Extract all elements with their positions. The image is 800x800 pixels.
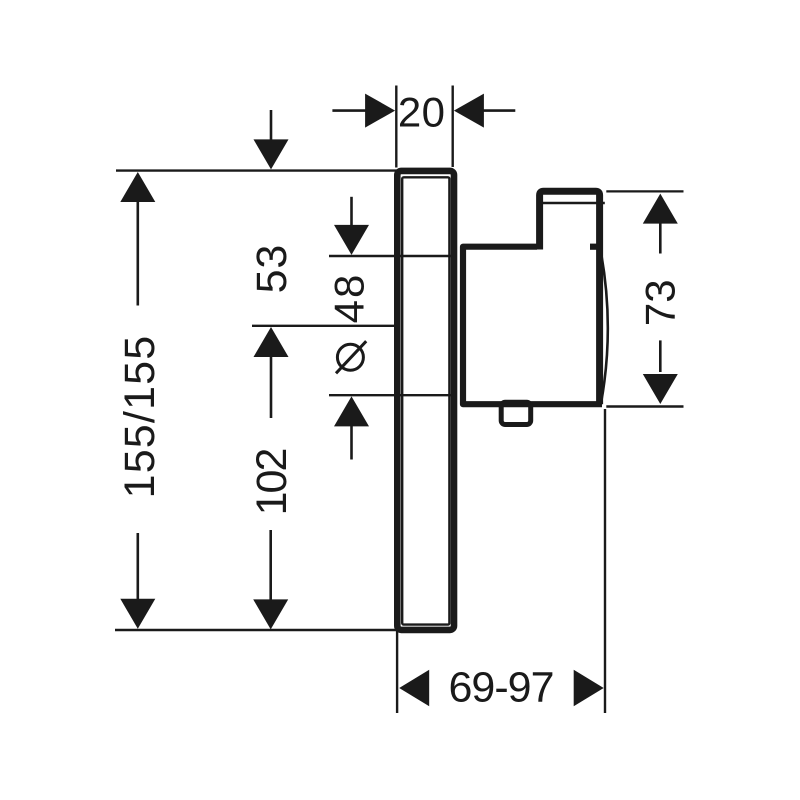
outlet spout [501,402,531,424]
dim 48 bottom arrow [334,396,369,459]
dim 102 bottom arrow [253,530,288,629]
extension line 69-97 left [396,630,398,713]
extension line 20-right [452,86,454,168]
shared arrow on centerline (53 bottom / 102 top) [254,327,289,418]
dim 69-97 left arrow [399,670,429,706]
extension line 48-bottom [329,394,455,396]
svg-text:102: 102 [248,450,296,516]
handle grip line [543,202,605,204]
extension line 73-bottom [606,405,683,407]
svg-text:48: 48 [326,273,373,324]
svg-text:53: 53 [248,244,296,293]
valve body outline [463,247,602,405]
svg-text:73: 73 [637,279,684,326]
dim Ø48 label: diameter symbol [336,341,366,373]
dim 73 bottom arrow [643,340,678,404]
body front curve [601,252,608,402]
dim 48 top arrow [334,197,369,255]
dim 20 left arrow [332,94,395,128]
dim 69-97 right arrow [574,670,604,706]
handle outline [540,191,600,404]
dim 73 top arrow [643,194,678,254]
svg-text:69-97: 69-97 [449,664,554,712]
extension line 20-left [395,86,397,168]
svg-text:155/155: 155/155 [116,335,164,499]
extension line 48-top [329,255,455,257]
extension line centerline 53/102 [252,325,395,327]
dim 155/155 bottom arrow [120,533,155,629]
svg-text:20: 20 [398,88,446,135]
body top edge stub right of handle [590,244,600,250]
bottom datum line (plate bottom) [115,629,397,631]
dim 20 right arrow [454,94,515,128]
top datum line (plate top) [116,169,397,171]
extension line 73-top [606,190,683,192]
baseplate inner face line [402,177,449,624]
baseplate outer outline [397,171,454,630]
dim 53 top arrow [254,110,289,169]
dim 155/155 top arrow [120,172,155,306]
extension line 69-97 right [604,409,606,713]
